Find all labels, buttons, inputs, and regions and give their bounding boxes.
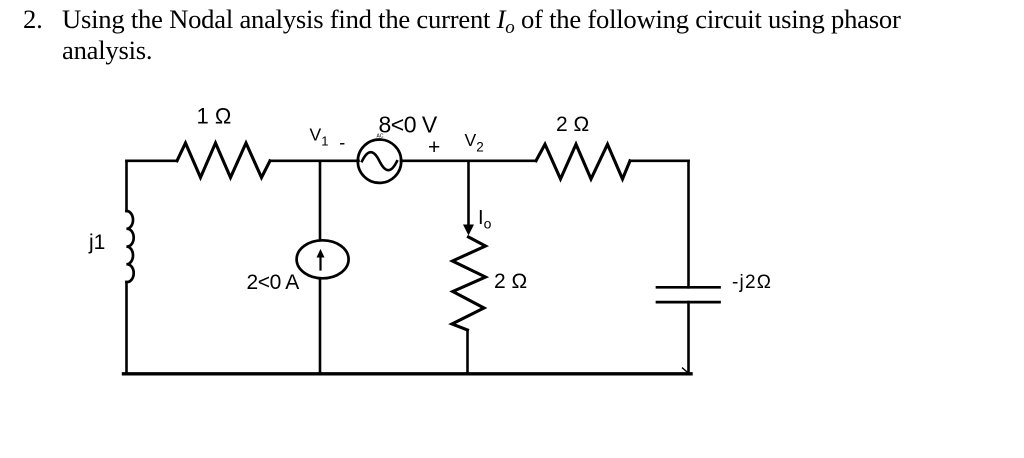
- wire capacitor to bottom-right corner: [687, 302, 690, 374]
- svg-text:8<0 V: 8<0 V: [379, 112, 438, 138]
- wire top-left horizontal (corner to R1): [127, 160, 178, 163]
- wire R1 to voltage source: [270, 160, 359, 163]
- voltage source sine symbol: [362, 152, 397, 170]
- svg-text:Io: Io: [478, 207, 492, 232]
- wire voltage source to R2: [401, 160, 536, 163]
- svg-text:1 Ω: 1 Ω: [197, 104, 232, 129]
- problem statement text: [62, 4, 901, 66]
- svg-text:+: +: [428, 136, 440, 159]
- wire current source to bottom: [319, 278, 322, 374]
- resistor R3 vertical zigzag 2 ohm: [452, 237, 486, 330]
- wire branch V2 node down (Io arrow shaft): [467, 161, 470, 228]
- Io arrowhead down: [463, 225, 474, 236]
- svg-text:2 Ω: 2 Ω: [556, 113, 589, 136]
- wire bottom horizontal: [124, 372, 692, 375]
- wire branch V1 node down to current source: [319, 161, 322, 240]
- wire R2 to top-right corner: [630, 160, 689, 163]
- inductor L1 coil j1: [127, 211, 134, 282]
- svg-text:j1: j1: [88, 231, 105, 254]
- wire right side vertical down to capacitor: [687, 161, 690, 287]
- resistor R2 zigzag 2 ohm top: [536, 144, 630, 179]
- capacitor C1 top plate: [657, 286, 720, 289]
- svg-text:-: -: [339, 133, 345, 153]
- voltage source U1 circle: [358, 140, 401, 183]
- current source arrow up: [319, 255, 321, 270]
- wire R3 to bottom: [466, 330, 469, 374]
- svg-text:2<0 A: 2<0 A: [247, 271, 300, 294]
- resistor R1 zigzag 1 ohm: [177, 143, 270, 178]
- svg-text:-j2Ω: -j2Ω: [732, 272, 772, 293]
- svg-text:V2: V2: [465, 130, 484, 155]
- wire left side top vertical: [125, 161, 128, 211]
- current source arrowhead: [317, 249, 325, 258]
- svg-text:V1: V1: [310, 125, 329, 149]
- capacitor C1 bottom plate: [657, 301, 720, 304]
- corner tick bottom-right: [683, 368, 689, 373]
- problem number 2.: [23, 4, 43, 35]
- wire left side bottom vertical: [125, 282, 128, 374]
- svg-text:2 Ω: 2 Ω: [494, 270, 527, 293]
- current source I1 ellipse: [297, 240, 349, 278]
